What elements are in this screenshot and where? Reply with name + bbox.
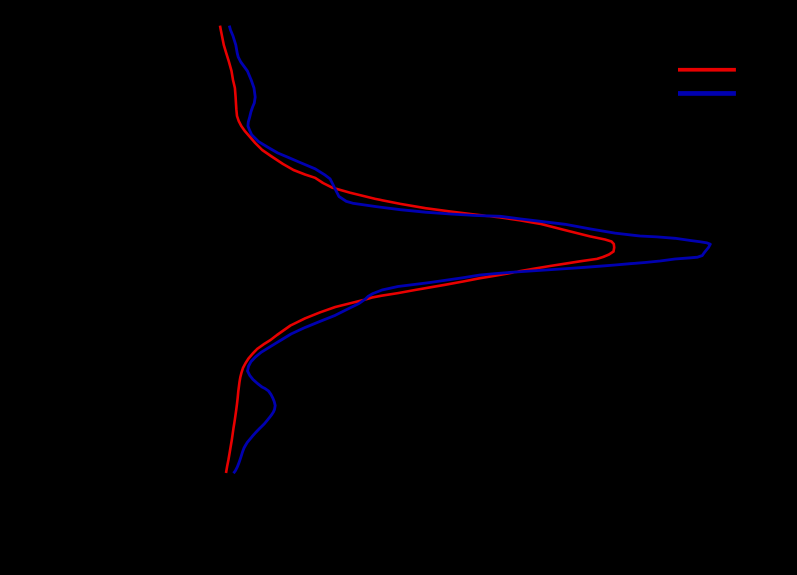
legend blue line (678, 91, 736, 96)
red curve (220, 26, 614, 473)
blue curve (229, 26, 710, 474)
legend red line (678, 68, 736, 72)
